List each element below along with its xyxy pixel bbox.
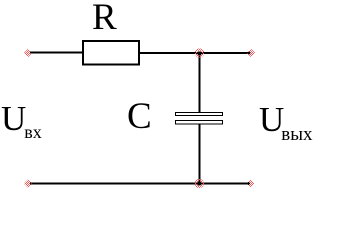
node: bottom-left terminal: [24, 180, 32, 188]
resistor R: [83, 41, 139, 65]
node: bottom junction (capacitor to return wire): [196, 180, 203, 187]
node: top junction (resistor/capacitor/output): [196, 49, 203, 56]
wire: resistor to output terminal (through top node): [140, 52, 249, 54]
wire: vertical from top node to capacitor top plate: [199, 53, 201, 113]
wire: capacitor bottom plate to bottom node: [199, 124, 201, 184]
node: top-right output terminal: [247, 49, 255, 57]
label U_vyx (output voltage): [259, 100, 313, 146]
wire: input top wire from left terminal to resistor: [31, 52, 83, 54]
label C (capacitor value): [127, 95, 152, 138]
label U_vx (input voltage): [1, 99, 42, 143]
node: top-left input terminal: [24, 49, 32, 57]
node: bottom-right terminal: [246, 180, 254, 188]
label R (resistor value): [92, 0, 117, 39]
capacitor C1 top plate: [176, 113, 223, 116]
capacitor C1 bottom plate: [176, 121, 223, 125]
wire: bottom return wire from left terminal to right terminal: [31, 183, 248, 185]
